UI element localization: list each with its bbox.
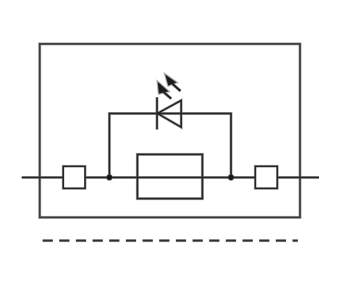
clamp contact left	[63, 166, 85, 188]
fuse F1	[137, 154, 202, 198]
LED D1 cathode bar	[156, 97, 158, 129]
dashed line (mounting rail marking)	[43, 240, 298, 242]
wire (LED branch: left riser, top run, right riser)	[109, 114, 231, 178]
LED light arrow 1 (lower left)	[158, 82, 172, 99]
wire (main through conductor)	[22, 176, 319, 178]
LED light arrow 2 (upper right)	[165, 75, 180, 92]
node A (left junction dot)	[107, 175, 113, 181]
terminal block outline	[40, 44, 300, 218]
LED D1 triangle	[157, 100, 181, 127]
clamp contact right	[255, 166, 277, 188]
node B (right junction dot)	[228, 175, 234, 181]
